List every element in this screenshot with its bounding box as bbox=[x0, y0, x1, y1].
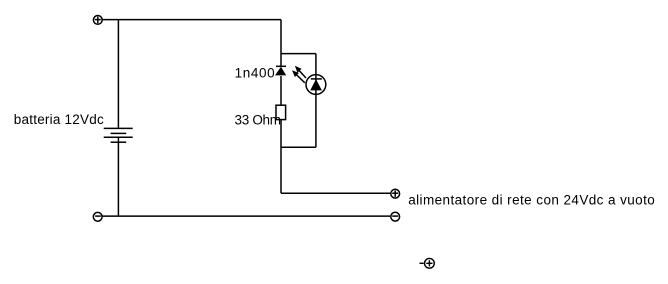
wire top horizontal bbox=[102, 19, 281, 21]
wire output plus horizontal bbox=[281, 192, 391, 194]
diode D1 1n400x bbox=[275, 66, 286, 75]
resistor R1 33 Ohm bbox=[276, 105, 286, 119]
terminal +batt (top-left plus terminal) bbox=[93, 16, 102, 25]
wire branch bottom horizontal bbox=[281, 146, 316, 148]
wire resistor down vertical bbox=[280, 120, 282, 194]
wire LED branch vertical bbox=[315, 54, 317, 148]
svg-text:1n400: 1n400 bbox=[235, 66, 275, 81]
wire battery bottom vertical bbox=[117, 137, 119, 216]
LED emission arrow 1 bbox=[295, 66, 306, 78]
svg-text:33 Ohm: 33 Ohm bbox=[235, 112, 282, 127]
terminal +out (right plus terminal) bbox=[391, 189, 400, 198]
wire right vertical upper bbox=[280, 20, 282, 67]
floating terminal plus (bottom centre) bbox=[420, 258, 435, 268]
LED DL1 bbox=[306, 75, 326, 95]
wire bottom horizontal bbox=[102, 215, 390, 217]
svg-text:batteria 12Vdc: batteria 12Vdc bbox=[14, 112, 104, 127]
svg-text:alimentatore di rete con 24Vdc: alimentatore di rete con 24Vdc a vuoto bbox=[408, 193, 655, 208]
battery B1 bbox=[104, 128, 133, 142]
wire battery top vertical bbox=[117, 20, 119, 129]
LED emission arrow 2 bbox=[292, 70, 305, 83]
wire diode to resistor bbox=[280, 76, 282, 105]
wire branch top horizontal bbox=[281, 53, 316, 55]
terminal -out (right minus terminal) bbox=[391, 212, 400, 221]
terminal -batt (bottom-left minus terminal) bbox=[93, 212, 102, 221]
